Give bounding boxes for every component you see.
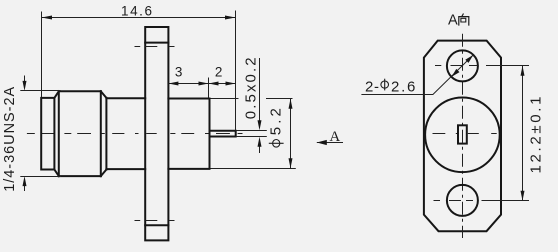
A-view vertical centerline <box>462 34 464 238</box>
svg-text:1/4-36UNS-2A: 1/4-36UNS-2A <box>2 86 18 191</box>
A-view title <box>448 12 469 28</box>
svg-text:3: 3 <box>175 64 183 79</box>
flange (edge-on) <box>145 27 168 240</box>
centre tab end view <box>458 125 467 143</box>
dimension phi 5.2 <box>211 99 296 169</box>
svg-text:2-: 2- <box>365 78 379 95</box>
dimension 12.2 +/- 0.1 <box>521 66 545 201</box>
main circle horizontal centerline <box>433 133 497 135</box>
solder tab 0.5x0.2 <box>210 131 236 137</box>
dimension 2 <box>209 64 236 85</box>
rear barrel (3mm section) <box>168 99 209 169</box>
threaded section 1/4-36UNS-2A (chamfered) <box>54 91 106 176</box>
top mounting hole <box>447 50 478 81</box>
bottom hole horizontal centerline <box>434 200 530 202</box>
svg-text:5.2: 5.2 <box>267 108 284 135</box>
main body circle <box>425 98 500 173</box>
bottom mounting hole <box>447 185 478 216</box>
top hole horizontal centerline <box>435 65 529 67</box>
barrel between thread and flange <box>106 98 145 169</box>
A-view flange outline <box>424 41 501 232</box>
dimension 0.5x0.2 <box>236 57 267 153</box>
glyph xiang (direction) <box>462 14 464 17</box>
label 2-phi2.6 with leader <box>361 55 473 95</box>
dimension 3 <box>168 64 208 98</box>
dimension 14.6 <box>42 4 236 130</box>
svg-text:A: A <box>448 12 458 28</box>
svg-text:A: A <box>329 129 340 145</box>
thread dimension leaders <box>20 76 61 192</box>
svg-text:2.6: 2.6 <box>391 78 415 95</box>
top ear hole centerline <box>135 46 175 48</box>
svg-text:14.6: 14.6 <box>121 4 152 19</box>
connector front cap (thread relief) <box>41 98 54 170</box>
bottom ear hole centerline <box>135 220 175 222</box>
thread label 1/4-36UNS-2A <box>2 86 18 191</box>
svg-text:2: 2 <box>215 64 223 79</box>
view direction arrow A <box>317 129 343 145</box>
main centerline (side view axis) <box>27 133 243 135</box>
